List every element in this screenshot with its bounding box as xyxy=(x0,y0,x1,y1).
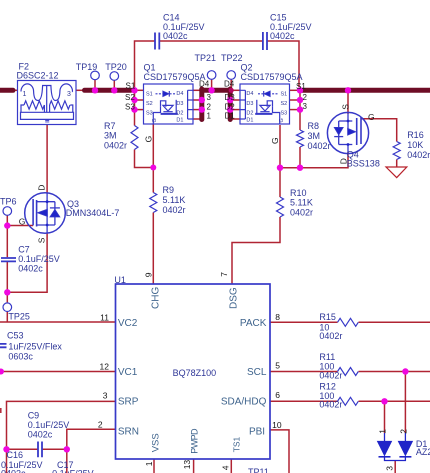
svg-text:S1: S1 xyxy=(296,82,306,91)
svg-text:G: G xyxy=(279,118,285,122)
svg-text:CHG: CHG xyxy=(151,287,162,309)
svg-text:R8: R8 xyxy=(308,121,320,131)
svg-text:TP20: TP20 xyxy=(105,62,127,72)
svg-text:G: G xyxy=(368,112,375,122)
svg-text:13: 13 xyxy=(182,460,192,470)
svg-text:D4: D4 xyxy=(246,91,253,97)
svg-text:D4: D4 xyxy=(199,80,210,89)
svg-text:10: 10 xyxy=(272,420,282,430)
svg-text:C7: C7 xyxy=(18,245,30,255)
svg-text:PWPD: PWPD xyxy=(189,428,199,454)
svg-text:0402r: 0402r xyxy=(290,207,313,217)
svg-text:S3: S3 xyxy=(125,102,135,111)
svg-text:S1: S1 xyxy=(126,82,136,91)
svg-text:S2: S2 xyxy=(281,101,288,107)
svg-text:DSG: DSG xyxy=(228,287,239,309)
svg-text:1: 1 xyxy=(144,461,154,466)
svg-text:TS1: TS1 xyxy=(232,436,242,452)
svg-text:3: 3 xyxy=(384,466,394,471)
svg-text:VSS: VSS xyxy=(151,433,162,452)
svg-text:R10: R10 xyxy=(290,188,307,198)
svg-text:PACK: PACK xyxy=(240,318,267,329)
svg-text:D3: D3 xyxy=(225,93,236,102)
svg-text:1: 1 xyxy=(23,91,27,98)
svg-text:D2: D2 xyxy=(246,110,253,116)
svg-text:5.11K: 5.11K xyxy=(163,195,186,205)
svg-text:0.1uF/25V: 0.1uF/25V xyxy=(52,468,94,473)
svg-text:TP19: TP19 xyxy=(76,62,98,72)
svg-text:Q1: Q1 xyxy=(144,62,156,72)
svg-text:0402c: 0402c xyxy=(163,31,188,41)
svg-text:D3: D3 xyxy=(246,101,253,107)
svg-text:5: 5 xyxy=(275,361,280,371)
svg-text:2: 2 xyxy=(398,429,408,434)
svg-text:D2: D2 xyxy=(176,110,183,116)
svg-text:CSD17579Q5A: CSD17579Q5A xyxy=(144,72,206,82)
svg-text:U1: U1 xyxy=(114,275,126,285)
svg-text:TP22: TP22 xyxy=(221,53,243,63)
svg-text:SCL: SCL xyxy=(247,367,267,378)
svg-text:11: 11 xyxy=(100,313,109,323)
svg-text:12: 12 xyxy=(100,362,110,372)
svg-text:S1: S1 xyxy=(281,91,288,97)
svg-text:0402c: 0402c xyxy=(28,430,53,440)
svg-text:2: 2 xyxy=(303,93,308,102)
svg-text:D: D xyxy=(37,185,47,191)
svg-text:R15: R15 xyxy=(319,312,336,322)
svg-text:S2: S2 xyxy=(146,101,153,107)
svg-text:0402c: 0402c xyxy=(1,468,26,473)
svg-text:S1: S1 xyxy=(146,91,153,97)
svg-text:3: 3 xyxy=(207,93,212,102)
svg-text:CSD17579Q5A: CSD17579Q5A xyxy=(241,72,303,82)
svg-text:D4: D4 xyxy=(224,80,235,89)
svg-text:D3: D3 xyxy=(176,101,183,107)
svg-text:0402r: 0402r xyxy=(308,141,331,151)
svg-text:D2: D2 xyxy=(225,102,236,111)
svg-text:7: 7 xyxy=(219,272,229,277)
svg-text:2: 2 xyxy=(98,419,103,429)
svg-text:0402r: 0402r xyxy=(319,400,342,410)
svg-text:TP6: TP6 xyxy=(0,197,17,207)
svg-text:3M: 3M xyxy=(308,131,321,141)
svg-text:0.1uF/25V: 0.1uF/25V xyxy=(18,254,60,264)
svg-text:DMN3404L-7: DMN3404L-7 xyxy=(66,208,120,218)
svg-text:1: 1 xyxy=(377,429,387,434)
svg-text:9: 9 xyxy=(143,272,153,277)
svg-text:S3: S3 xyxy=(281,110,288,116)
svg-text:TP25: TP25 xyxy=(8,312,30,322)
svg-text:1uF/25V/Flex: 1uF/25V/Flex xyxy=(8,342,62,352)
svg-text:D4: D4 xyxy=(176,91,183,97)
svg-text:2: 2 xyxy=(207,102,212,111)
svg-text:D6SC2-12: D6SC2-12 xyxy=(17,71,59,81)
svg-text:D1: D1 xyxy=(176,117,183,123)
svg-text:R12: R12 xyxy=(319,381,336,391)
svg-text:C53: C53 xyxy=(7,331,24,341)
svg-text:5.11K: 5.11K xyxy=(290,198,313,208)
svg-text:D1: D1 xyxy=(225,112,236,121)
svg-text:G: G xyxy=(19,216,26,226)
svg-text:C16: C16 xyxy=(7,450,24,460)
svg-text:0402r: 0402r xyxy=(319,370,342,380)
svg-text:TP11: TP11 xyxy=(248,467,269,473)
svg-text:0402r: 0402r xyxy=(163,205,186,215)
svg-text:S3: S3 xyxy=(146,110,153,116)
svg-text:BSS138: BSS138 xyxy=(347,159,380,169)
svg-text:SDA/HDQ: SDA/HDQ xyxy=(221,397,267,408)
svg-text:S: S xyxy=(37,237,47,243)
svg-text:8: 8 xyxy=(275,312,280,322)
svg-text:BQ78Z100: BQ78Z100 xyxy=(173,368,217,378)
svg-text:6: 6 xyxy=(275,390,280,400)
svg-text:C9: C9 xyxy=(28,410,40,420)
svg-text:3M: 3M xyxy=(104,131,117,141)
svg-text:0402c: 0402c xyxy=(270,31,295,41)
svg-text:D1: D1 xyxy=(246,117,253,123)
svg-text:0.1uF/25V: 0.1uF/25V xyxy=(28,420,70,430)
svg-text:R11: R11 xyxy=(319,352,335,362)
svg-text:G: G xyxy=(144,136,154,143)
svg-text:SRP: SRP xyxy=(118,397,139,408)
svg-text:VC1: VC1 xyxy=(118,367,138,378)
svg-text:0603c: 0603c xyxy=(8,352,33,362)
svg-text:G: G xyxy=(270,137,280,144)
svg-text:3: 3 xyxy=(303,102,308,111)
svg-text:D: D xyxy=(339,158,349,164)
svg-text:PBI: PBI xyxy=(249,426,265,437)
svg-text:TP21: TP21 xyxy=(195,53,217,63)
svg-text:S: S xyxy=(341,104,351,110)
svg-text:0402r: 0402r xyxy=(319,331,342,341)
svg-text:10K: 10K xyxy=(407,140,423,150)
svg-text:SRN: SRN xyxy=(118,426,139,437)
svg-text:S2: S2 xyxy=(125,93,135,102)
svg-text:0402r: 0402r xyxy=(407,150,430,160)
svg-text:1: 1 xyxy=(207,112,212,121)
svg-text:Q2: Q2 xyxy=(241,62,253,72)
svg-text:VC2: VC2 xyxy=(118,318,138,329)
svg-text:0402r: 0402r xyxy=(104,140,127,150)
svg-text:3: 3 xyxy=(103,390,108,400)
svg-text:R9: R9 xyxy=(163,185,175,195)
svg-text:AZ23C: AZ23C xyxy=(416,447,430,457)
svg-text:G: G xyxy=(152,118,158,122)
svg-text:R7: R7 xyxy=(104,121,116,131)
svg-text:0402c: 0402c xyxy=(18,264,43,274)
svg-text:3: 3 xyxy=(67,91,71,98)
svg-text:R16: R16 xyxy=(407,130,424,140)
svg-text:4: 4 xyxy=(221,465,231,470)
